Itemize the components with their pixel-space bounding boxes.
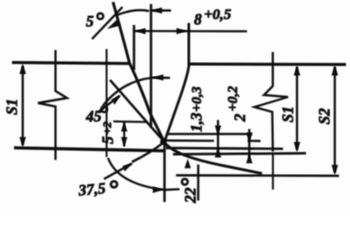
svg-text:2: 2 <box>232 114 249 123</box>
svg-text:S1: S1 <box>4 99 21 115</box>
svg-text:+0,3: +0,3 <box>190 87 205 112</box>
svg-text:+0,5: +0,5 <box>204 7 232 23</box>
svg-text:37,5: 37,5 <box>77 180 107 199</box>
svg-text:S2: S2 <box>317 108 334 125</box>
svg-text:8: 8 <box>194 12 202 29</box>
svg-text:5: 5 <box>86 14 94 31</box>
svg-text:5: 5 <box>100 136 117 144</box>
svg-text:22: 22 <box>182 187 199 204</box>
svg-text:S1: S1 <box>280 106 297 122</box>
svg-text:1,3: 1,3 <box>189 112 206 132</box>
svg-text:+2: +2 <box>100 122 114 135</box>
svg-text:+0,2: +0,2 <box>226 86 241 111</box>
